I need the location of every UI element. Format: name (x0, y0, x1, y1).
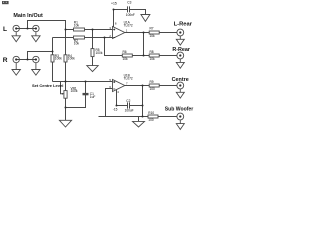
svg-text:C3: C3 (127, 1, 131, 5)
pot VR1 top lead (65, 82, 67, 91)
svg-text:100uF: 100uF (125, 109, 134, 113)
op-amp U1A (113, 27, 125, 39)
svg-text:R10: R10 (148, 111, 154, 115)
svg-text:10k: 10k (74, 23, 80, 27)
svg-text:Set Centre Level: Set Centre Level (32, 83, 63, 88)
wire R3 bottom (52, 62, 54, 82)
node pot ground C1 (65, 107, 67, 109)
connector L jack 2 (33, 25, 39, 31)
connector L-Rear jack (177, 29, 184, 36)
resistor R5 shunt (91, 49, 94, 57)
wire shunt to ground (92, 57, 94, 66)
pin L-Rear jack center (179, 31, 181, 33)
node L jacks junction (27, 28, 29, 30)
wire R4 bottom (65, 62, 67, 82)
wire bottom rail (99, 116, 149, 118)
node U1B out (142, 85, 144, 87)
node R2 rail (52, 51, 54, 53)
resistor R6 feedback (122, 54, 132, 57)
resistor R1 (74, 28, 85, 31)
wire C2 row right (130, 105, 143, 107)
wire U1B inverting stub (106, 89, 113, 117)
wire R4 vertical (65, 30, 67, 55)
resistor R7 (149, 31, 159, 34)
wire C2 row left (117, 105, 128, 107)
wire R3 top (52, 52, 54, 55)
connector Centre jack (177, 82, 184, 89)
ground R-Rear (179, 59, 181, 63)
wire supply rail to C3 (114, 9, 128, 11)
ground L jack2 (35, 32, 37, 36)
wire R riser and rail (28, 52, 53, 60)
resistor R4 (64, 55, 67, 62)
node sub feed (142, 116, 144, 118)
ground R jack1 (15, 63, 17, 70)
wire R2 drop (52, 38, 54, 52)
svg-text:100k: 100k (55, 57, 62, 61)
svg-text:Centre: Centre (172, 77, 189, 83)
wire R row (16, 59, 36, 61)
svg-text:R-Rear: R-Rear (172, 47, 191, 53)
ground Sub (179, 120, 181, 124)
wire C3 to ground (130, 10, 146, 15)
wire R7 to L-Rear jack (159, 32, 177, 34)
svg-text:100k: 100k (71, 89, 78, 93)
wire +15 supply (113, 10, 115, 28)
U1A minus input mark (113, 37, 115, 39)
capacitor C2 plates (127, 102, 129, 108)
svg-text:R9: R9 (150, 80, 154, 84)
resistor R10 (148, 115, 158, 118)
node sum C1 (85, 81, 87, 83)
pin R jack 2 center (35, 58, 37, 60)
U1A plus input mark (113, 29, 115, 31)
pin L jack 2 center (35, 27, 37, 29)
capacitor C3 plates (127, 6, 129, 12)
ground shunt (87, 66, 98, 72)
pin R jack 1 center (15, 58, 17, 60)
svg-text:TL072: TL072 (124, 23, 133, 27)
wire R8 to R-Rear jack (159, 55, 177, 57)
ground rail (133, 121, 145, 127)
svg-text:R6: R6 (123, 50, 127, 54)
wire R9 to Centre jack (159, 85, 177, 87)
op-amp U1B (113, 80, 125, 92)
pin Sub jack center (179, 115, 181, 117)
wire feedback row (132, 55, 149, 57)
node sum R4 (65, 81, 67, 83)
pot wiper arrowhead (62, 93, 64, 95)
svg-text:R: R (3, 57, 8, 64)
pot wiper wire (61, 82, 63, 94)
svg-text:10k: 10k (123, 57, 129, 61)
ground C3 (141, 15, 150, 22)
node +15 (113, 9, 115, 11)
wire L riser and top rail (28, 21, 66, 30)
svg-text:-15: -15 (113, 108, 118, 112)
connector R-Rear jack (177, 52, 184, 59)
wire R2 to opamp (85, 37, 113, 39)
node U1A fb tap (104, 37, 106, 39)
svg-text:Sub Woofer: Sub Woofer (165, 107, 194, 113)
node C2 out (142, 105, 144, 107)
node R1 tap (65, 29, 67, 31)
wire U1A output row (125, 32, 149, 34)
pin R-Rear jack center (179, 54, 181, 56)
pin Centre jack center (179, 84, 181, 86)
wire R2 feed (53, 37, 74, 39)
svg-text:10k: 10k (150, 57, 156, 61)
wire U1B pin4 (116, 90, 118, 106)
svg-text:100: 100 (148, 118, 154, 122)
ground L-Rear (179, 36, 181, 39)
svg-text:10k: 10k (150, 34, 156, 38)
resistor R8 (149, 54, 159, 57)
connector R jack 1 (13, 56, 19, 62)
node R jacks junction (27, 59, 29, 61)
wire U1A feedback drop (105, 38, 123, 56)
resistor R9 (149, 84, 159, 87)
capacitor C1 top lead (85, 82, 87, 94)
node shunt tap (92, 29, 94, 31)
logo ESP (2, 1, 9, 4)
U1B plus input mark (113, 81, 115, 83)
svg-text:TL072: TL072 (124, 76, 133, 80)
ground L jack1 (15, 32, 17, 36)
resistor R3 (51, 55, 54, 62)
connector L jack 1 (13, 25, 19, 31)
svg-text:100: 100 (150, 87, 156, 91)
wire rail ground stem (138, 117, 140, 122)
resistor R2 (74, 36, 85, 39)
pin L jack 1 center (15, 27, 17, 29)
svg-text:L: L (3, 26, 7, 33)
svg-text:L-Rear: L-Rear (174, 22, 193, 28)
svg-text:R8: R8 (150, 50, 154, 54)
U1B minus input mark (113, 88, 115, 90)
wire shunt drop (92, 30, 94, 49)
wire R1 to opamp (85, 29, 113, 31)
svg-text:100k: 100k (68, 57, 75, 61)
node U1A fb out (143, 55, 145, 57)
capacitor C1 bottom lead (66, 95, 86, 108)
svg-text:1uF: 1uF (90, 95, 96, 99)
connector Sub jack (177, 113, 184, 120)
ground R jack2 (35, 63, 37, 70)
svg-text:100k: 100k (96, 51, 103, 55)
node pin4 (116, 105, 118, 107)
wire U1B output drop (142, 86, 144, 117)
svg-text:C2: C2 (126, 99, 130, 103)
ground Centre (179, 89, 181, 92)
svg-text:Main In/Out: Main In/Out (13, 13, 43, 19)
wire U1A output drop (143, 33, 145, 56)
ground pot (59, 120, 71, 127)
svg-text:100nF: 100nF (126, 13, 135, 17)
capacitor C1 plates (83, 93, 89, 95)
svg-text:+15: +15 (111, 2, 117, 6)
pot VR1 bottom lead (65, 98, 67, 120)
node U1A out (143, 32, 145, 34)
connector R jack 2 (33, 56, 39, 62)
svg-text:10k: 10k (74, 42, 80, 46)
wire U1B output row (125, 85, 149, 87)
wire L row (16, 28, 36, 30)
svg-text:R7: R7 (150, 27, 154, 31)
wire sum line (53, 81, 113, 83)
wire R1 feed (66, 29, 74, 31)
wire R10 to Sub jack (158, 116, 177, 118)
pot VR1 body (64, 91, 67, 99)
